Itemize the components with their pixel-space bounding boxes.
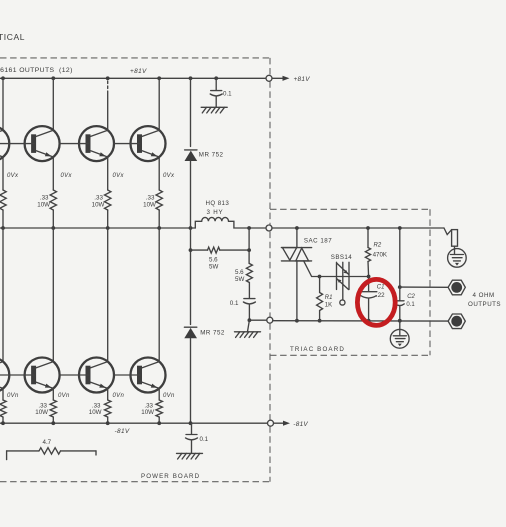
svg-text:OUTPUTS: OUTPUTS xyxy=(468,301,501,308)
wire emitter Q2 to R xyxy=(52,157,54,190)
svg-text:R2: R2 xyxy=(374,242,382,248)
svg-text:0.1: 0.1 xyxy=(230,300,239,307)
+81V arrow xyxy=(272,77,283,79)
svg-text:C1: C1 xyxy=(377,284,385,290)
node terminal circle (triac bottom feed) xyxy=(267,317,273,323)
transistor Q7 xyxy=(60,358,114,393)
svg-text:+81V: +81V xyxy=(130,68,147,75)
svg-text:SAC 187: SAC 187 xyxy=(304,237,332,244)
junction dots on +81V rail xyxy=(1,76,5,80)
wire emitter Q5 to R xyxy=(2,389,4,401)
wire emitter Q4 to R xyxy=(158,157,160,190)
wire diode column mid xyxy=(190,161,192,325)
junction dot triac bottom xyxy=(295,319,299,323)
capacitor 0.1 (5.6 leg) xyxy=(243,283,255,321)
junction dots bottom rail xyxy=(1,421,5,425)
wire from top rail down to output rail xyxy=(399,228,401,287)
wire diode column bottom xyxy=(190,339,192,424)
resistor 4.7 (fragment) xyxy=(7,439,96,460)
transistor Q8 xyxy=(114,358,166,393)
ground (hatched, top cap) xyxy=(201,107,227,113)
wire collector Q1 xyxy=(2,78,4,130)
svg-text:0.1: 0.1 xyxy=(406,302,415,308)
junction dot gate node xyxy=(318,275,322,279)
wire mid rail to board edge xyxy=(249,227,266,229)
svg-text:C2: C2 xyxy=(407,294,415,300)
svg-text:R1: R1 xyxy=(325,295,333,301)
svg-text:10W: 10W xyxy=(141,409,154,416)
svg-text:0Vn: 0Vn xyxy=(163,393,175,399)
svg-text:10W: 10W xyxy=(89,409,102,416)
svg-text:10W: 10W xyxy=(143,202,156,209)
svg-text:SBS14: SBS14 xyxy=(331,254,352,261)
wire collector Q6 xyxy=(52,228,54,362)
svg-text:.33: .33 xyxy=(146,195,155,202)
wire -81V bottom rail xyxy=(0,422,268,424)
svg-text:10W: 10W xyxy=(92,202,105,209)
node output terminal circle (mid) xyxy=(266,225,272,231)
svg-text:4 OHM: 4 OHM xyxy=(473,292,495,299)
resistor R .33 10W (5) xyxy=(0,400,6,417)
svg-text:TICAL: TICAL xyxy=(0,32,25,42)
triac board dashed border top xyxy=(270,208,430,210)
svg-text:0Vx: 0Vx xyxy=(163,173,175,179)
svg-text:5W: 5W xyxy=(235,276,244,283)
junction dots mid rail xyxy=(1,226,5,230)
SBS14 trigger device xyxy=(337,262,350,305)
svg-text:470K: 470K xyxy=(373,252,388,259)
wire from mid rail down to 5.6 resistors xyxy=(248,228,250,264)
svg-text:10W: 10W xyxy=(37,202,50,209)
wire emitter Q8 to R xyxy=(158,389,160,401)
earth ground circle (below C2) xyxy=(390,321,409,348)
svg-text:10W: 10W xyxy=(35,409,48,416)
junction dot C2 bottom xyxy=(398,319,402,323)
svg-text:06161 OUTPUTS (12): 06161 OUTPUTS (12) xyxy=(0,67,73,74)
power board dashed border bottom xyxy=(0,481,271,483)
power board dashed border top xyxy=(0,57,270,59)
earth ground circle (top right) xyxy=(448,249,467,268)
capacitor C1 .22 xyxy=(361,277,377,321)
transistor Q1 xyxy=(0,126,9,161)
transistor Q6 xyxy=(0,358,60,393)
wire collector Q4 xyxy=(158,78,160,130)
junction dot R1 bottom xyxy=(318,319,322,323)
svg-text:0.1: 0.1 xyxy=(223,90,232,97)
node +81V terminal circle xyxy=(266,75,272,81)
svg-text:POWER BOARD: POWER BOARD xyxy=(141,473,200,480)
wire mid rail triac board xyxy=(272,227,444,229)
capacitor C2 0.1 xyxy=(395,287,404,321)
svg-text:.22: .22 xyxy=(376,292,385,299)
triac board dashed border right xyxy=(429,209,431,355)
svg-text:MR 752: MR 752 xyxy=(199,152,224,159)
svg-text:0Vx: 0Vx xyxy=(61,173,73,179)
svg-text:4.7: 4.7 xyxy=(43,439,52,446)
wire output mid rail xyxy=(0,227,195,229)
junction dot C1 top node xyxy=(367,275,371,279)
wire emitter Q6 to R xyxy=(52,389,54,401)
svg-text:5.6: 5.6 xyxy=(235,269,244,276)
triac SAC187 xyxy=(281,228,319,321)
svg-text:-81V: -81V xyxy=(293,421,308,428)
ground (hatched, bottom cap) xyxy=(177,453,203,459)
svg-text:0Vx: 0Vx xyxy=(7,173,19,179)
svg-text:TRIAC BOARD: TRIAC BOARD xyxy=(290,346,345,353)
wire emitter Q3 to R xyxy=(107,157,109,190)
resistor R1 1K xyxy=(317,277,323,321)
svg-text:5.6: 5.6 xyxy=(209,257,218,264)
diode MR752 (bottom) xyxy=(184,327,197,338)
wire node to board edge (triac bottom feed) xyxy=(249,319,266,321)
red highlight ellipse around C1 xyxy=(357,279,395,325)
resistor R .33 10W (1) xyxy=(0,190,6,210)
power board dashed border right xyxy=(269,58,271,75)
transistor Q5 xyxy=(0,358,9,393)
svg-text:0Vn: 0Vn xyxy=(7,393,19,399)
triac board dashed border bottom xyxy=(270,354,431,356)
svg-text:-81V: -81V xyxy=(115,428,130,435)
diode MR752 (top) xyxy=(185,150,198,161)
junction dot R2 top xyxy=(366,226,370,230)
svg-text:1K: 1K xyxy=(325,303,332,309)
wire collector Q3 (dashed continuation) xyxy=(107,81,109,91)
transistor Q4 xyxy=(114,126,166,161)
svg-text:MR 752: MR 752 xyxy=(200,330,225,337)
svg-text:.33: .33 xyxy=(40,195,49,202)
svg-text:0Vn: 0Vn xyxy=(113,393,125,399)
wire collector Q2 xyxy=(52,78,54,130)
wire emitter Q1 to R xyxy=(2,157,4,190)
resistor R2 470K xyxy=(365,228,370,277)
svg-text:0Vn: 0Vn xyxy=(58,393,70,399)
wire collector Q5 xyxy=(2,228,4,362)
svg-text:0Vx: 0Vx xyxy=(113,173,125,179)
wire output rail (to hexagon 1) xyxy=(400,286,448,288)
junction dot triac top xyxy=(295,226,299,230)
fuse output top right xyxy=(444,228,458,250)
svg-text:3 HY: 3 HY xyxy=(207,209,224,216)
svg-text:HQ 813: HQ 813 xyxy=(206,200,230,207)
capacitor 0.1 (bottom rail bypass) xyxy=(186,423,198,453)
wire bottom rail triac board xyxy=(273,320,448,322)
-81V arrow xyxy=(274,422,284,424)
wire gate line to C1 node xyxy=(320,276,369,278)
junction dot C1 bottom xyxy=(367,319,371,323)
connector hexagon 1 (4 ohm output) xyxy=(448,280,465,295)
svg-text:.33: .33 xyxy=(94,195,103,202)
junction dot diode column at mid rail xyxy=(189,248,193,252)
transistor Q2 xyxy=(0,126,60,161)
wire emitter Q7 to R xyxy=(107,389,109,401)
svg-text:0.1: 0.1 xyxy=(200,436,209,443)
svg-text:+81V: +81V xyxy=(294,76,311,83)
node -81V terminal circle xyxy=(268,420,274,426)
wire +81V top rail xyxy=(0,77,266,79)
svg-text:5W: 5W xyxy=(209,264,218,271)
wire collector Q8 xyxy=(158,228,160,362)
ground (hatched, 5.6 leg) xyxy=(235,320,261,337)
diode column wire top xyxy=(190,78,192,146)
connector hexagon 2 (4 ohm output) xyxy=(448,314,465,329)
transistor Q3 xyxy=(60,126,114,161)
capacitor 0.1 (top rail bypass) xyxy=(210,78,222,107)
wire collector Q7 xyxy=(107,228,109,362)
